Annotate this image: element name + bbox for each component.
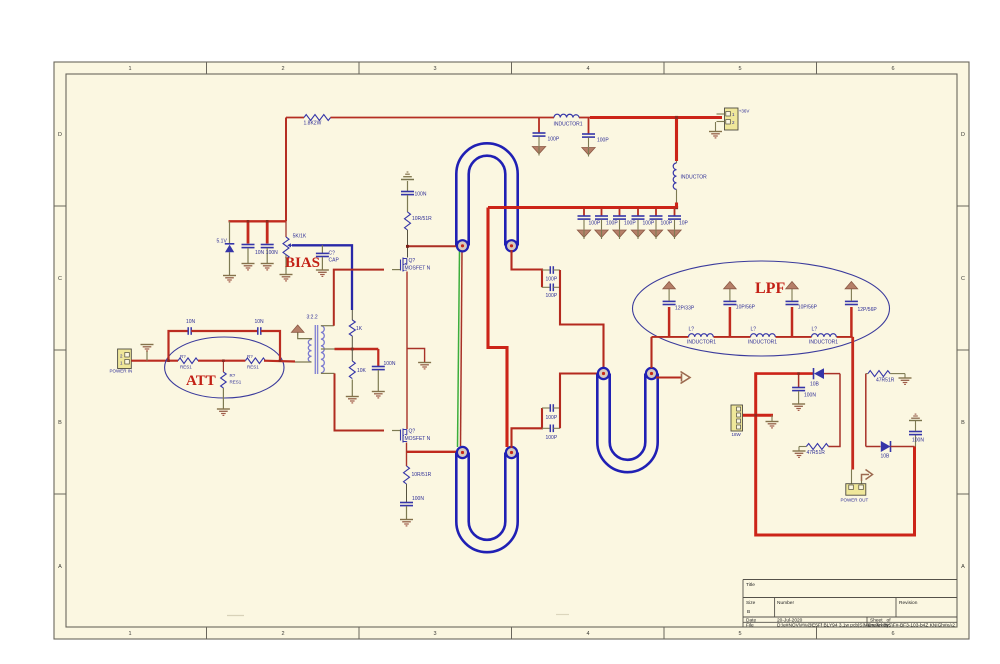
svg-text:Size: Size <box>746 600 756 606</box>
power arrow LPF 4 <box>845 282 858 293</box>
svg-text:100N: 100N <box>266 250 278 256</box>
ground bus 5 <box>649 230 662 239</box>
wire green cross link <box>458 250 460 447</box>
connector POWER OUT <box>841 470 869 503</box>
capacitor 100P coupling top B <box>542 284 560 300</box>
svg-text:2: 2 <box>281 631 284 637</box>
capacitor 100P bus 5 <box>650 208 673 230</box>
ground at +36V <box>715 122 717 131</box>
capacitor 10N bias <box>242 221 265 263</box>
resistor R 1.8K2W <box>304 115 331 121</box>
ground under Q2 chain <box>400 520 413 526</box>
svg-text:A: A <box>961 564 965 570</box>
wire blue bias wiper <box>292 245 352 310</box>
capacitor 100N detector left <box>792 374 816 404</box>
capacitor 100P bus 4 <box>632 208 655 230</box>
svg-text:File: File <box>746 623 754 629</box>
svg-text:INDUCTOR1: INDUCTOR1 <box>687 340 716 346</box>
svg-text:C: C <box>961 276 965 282</box>
svg-text:D:\e#NOV\#%@E5Ff BLY94 3.1w pc: D:\e#NOV\#%@E5Ff BLY94 3.1w pcb|S|ManuTe… <box>777 623 955 629</box>
wire Q2 source stub <box>406 443 408 467</box>
node junction detector cap <box>797 372 800 375</box>
svg-text:100P: 100P <box>661 221 673 227</box>
svg-text:10P/56P: 10P/56P <box>736 305 756 311</box>
svg-text:POWER OUT: POWER OUT <box>841 498 869 503</box>
svg-text:RES1: RES1 <box>180 365 192 370</box>
wire small U right to arrow <box>656 376 681 378</box>
svg-text:10R/51R: 10R/51R <box>412 216 432 222</box>
svg-text:D: D <box>58 132 62 138</box>
inductor L? INDUCTOR1 lpf 3 <box>809 327 838 346</box>
svg-text:C: C <box>58 276 62 282</box>
svg-text:POWER IN: POWER IN <box>110 369 133 374</box>
resistor R? RES1 series left <box>178 354 198 370</box>
ground under 10K <box>346 397 359 403</box>
svg-text:6: 6 <box>891 631 894 637</box>
svg-text:C?: C? <box>329 251 336 257</box>
svg-text:INDUCTOR: INDUCTOR <box>681 175 708 181</box>
svg-text:CAP: CAP <box>329 258 340 264</box>
resistor 10K <box>349 349 366 396</box>
svg-text:LPF: LPF <box>755 280 785 297</box>
capacitor 100P coupling bottom B <box>542 425 560 441</box>
svg-text:3: 3 <box>433 631 436 637</box>
svg-text:3: 3 <box>433 66 436 72</box>
capacitor 100N Q1 chain <box>401 181 427 212</box>
ground under zener <box>223 276 236 282</box>
wire Z bottom to small U <box>560 374 599 429</box>
svg-text:100N: 100N <box>384 361 396 367</box>
capacitor 100N Q2 chain <box>400 496 424 519</box>
ellipse ATT <box>165 337 284 398</box>
svg-text:B: B <box>961 420 965 426</box>
ground under 100N <box>261 264 274 270</box>
svg-text:D: D <box>961 132 965 138</box>
svg-text:L?: L? <box>689 327 695 333</box>
svg-text:100N: 100N <box>912 438 924 444</box>
svg-text:100P: 100P <box>643 221 655 227</box>
svg-text:B: B <box>747 609 750 615</box>
svg-text:1: 1 <box>128 66 131 72</box>
svg-text:+36V: +36V <box>739 109 750 114</box>
ground bus 3 <box>613 230 626 239</box>
capacitor 10P bus 6 <box>668 208 689 230</box>
ground bus 2 <box>595 230 608 239</box>
wire gate2 net <box>335 373 385 430</box>
potentiometer 5K/1K <box>283 221 307 274</box>
svg-text:100N: 100N <box>415 192 427 198</box>
svg-text:L?: L? <box>751 327 757 333</box>
resistor R? RES1 series right <box>245 354 265 370</box>
coax tube upper U <box>463 150 512 247</box>
capacitor 10N att left <box>169 319 258 361</box>
svg-text:47R51R: 47R51R <box>876 378 895 384</box>
node Q1 drain junction <box>406 245 409 248</box>
power arrow LPF 2 <box>724 282 737 293</box>
node junction bias rail 10N <box>247 220 250 223</box>
wire small U right up to LPF <box>650 337 652 368</box>
capacitor 100P coupling bottom A <box>542 404 560 421</box>
svg-text:Q?: Q? <box>409 258 416 264</box>
wire detector right drop <box>829 374 841 447</box>
power arrow LPF 3 <box>786 282 799 293</box>
node terminal small-left <box>598 368 609 379</box>
transistor Q1 MOSFET N <box>392 258 431 272</box>
svg-text:A: A <box>58 564 62 570</box>
capacitor 100P top right <box>582 118 609 148</box>
svg-text:12P/33P: 12P/33P <box>675 306 695 312</box>
wire power in <box>131 360 178 362</box>
power arrow right of small U <box>681 372 691 384</box>
svg-text:MOSFET N: MOSFET N <box>405 436 431 442</box>
node junction 18W loop <box>754 414 757 417</box>
wire output loop left <box>756 415 915 535</box>
svg-text:Q?: Q? <box>409 429 416 435</box>
wire right branch drop <box>865 374 867 447</box>
ground Q1 source <box>418 363 431 369</box>
capacitor 100N bias <box>261 221 278 263</box>
svg-text:4: 4 <box>586 631 589 637</box>
capacitor 12P/33P <box>663 292 695 337</box>
resistor 47R51R upper right <box>866 371 905 384</box>
wire main bus vertical drop <box>488 208 507 448</box>
ground at power in <box>146 351 148 361</box>
wire LPF main <box>652 336 689 338</box>
title block <box>743 580 957 628</box>
diode D detector left <box>810 368 840 388</box>
ground at 18W <box>771 415 773 421</box>
svg-text:10K: 10K <box>357 368 367 374</box>
wire red cross link <box>461 251 463 446</box>
svg-text:5.1V: 5.1V <box>217 239 228 245</box>
wire top mid stub <box>579 117 592 119</box>
svg-text:10B: 10B <box>881 454 891 460</box>
wire center tap <box>335 348 379 350</box>
svg-text:1: 1 <box>128 631 131 637</box>
connector POWER IN <box>110 349 133 374</box>
node junction bias rail 100N <box>266 220 269 223</box>
capacitor 10P/56P second <box>723 292 755 337</box>
svg-text:100P: 100P <box>606 221 618 227</box>
wire top thick to connector <box>590 116 722 119</box>
ground under shunt RES1 <box>217 409 230 415</box>
power arrow at transformer primary <box>291 325 304 336</box>
inductor L? INDUCTOR1 lpf 2 <box>748 327 777 346</box>
ellipse LPF <box>633 261 890 356</box>
ground under CAP <box>316 270 329 276</box>
ground under 100N center tap <box>372 392 385 398</box>
svg-text:5K/1K: 5K/1K <box>293 234 307 240</box>
svg-text:100P: 100P <box>548 137 560 143</box>
power arrow LPF 1 <box>663 282 676 293</box>
node junction att mid <box>222 359 225 362</box>
node terminal upper-right <box>506 240 517 251</box>
svg-text:INDUCTOR1: INDUCTOR1 <box>809 340 838 346</box>
ground bus 4 <box>631 230 644 239</box>
svg-text:4: 4 <box>586 66 589 72</box>
svg-text:100P: 100P <box>597 138 609 144</box>
svg-text:100P: 100P <box>589 221 601 227</box>
ground lower resistor <box>793 451 806 457</box>
transistor Q2 MOSFET N <box>392 429 431 443</box>
svg-text:12P/56P: 12P/56P <box>858 307 878 313</box>
wire top feed horizontal <box>286 117 304 119</box>
svg-text:100P: 100P <box>546 435 558 441</box>
svg-text:INDUCTOR1: INDUCTOR1 <box>554 122 583 128</box>
svg-text:Title: Title <box>746 582 755 588</box>
wire att mid <box>198 360 245 362</box>
svg-text:MOSFET N: MOSFET N <box>405 266 431 272</box>
svg-text:R?: R? <box>247 354 253 359</box>
node junction bus right <box>675 206 678 209</box>
svg-text:RES1: RES1 <box>247 365 259 370</box>
svg-text:10B: 10B <box>810 382 820 388</box>
svg-text:1K: 1K <box>356 326 363 332</box>
svg-text:10P/56P: 10P/56P <box>798 305 818 311</box>
wire feed drop to bias rail <box>285 118 287 222</box>
svg-text:Revision: Revision <box>899 600 918 606</box>
svg-text:2: 2 <box>281 66 284 72</box>
wire main bus horizontal <box>488 206 677 209</box>
capacitor 100P bus 2 <box>595 208 618 230</box>
svg-text:100P: 100P <box>546 276 558 282</box>
resistor 10R/51R Q2 chain <box>404 466 432 502</box>
ground up-facing above Q1 chain <box>401 172 414 180</box>
node divider junction <box>351 348 354 351</box>
ground under 10N <box>242 264 255 270</box>
svg-text:10R/51R: 10R/51R <box>412 472 432 478</box>
connector J 18W <box>731 405 743 437</box>
inductor INDUCTOR1 top <box>554 114 583 127</box>
svg-text:5: 5 <box>738 66 741 72</box>
node junction top <box>675 116 678 119</box>
svg-text:ATT: ATT <box>186 373 216 389</box>
svg-text:B: B <box>58 420 62 426</box>
svg-text:10P: 10P <box>679 221 689 227</box>
inductor L? INDUCTOR1 lpf 1 <box>687 327 716 346</box>
svg-text:RES1: RES1 <box>230 380 242 385</box>
capacitor 10N att right <box>255 319 281 361</box>
wire faint artifact <box>227 615 244 617</box>
svg-text:R?: R? <box>180 354 186 359</box>
svg-text:100N: 100N <box>412 496 424 502</box>
svg-text:BIAS: BIAS <box>285 255 320 271</box>
svg-text:47R51R: 47R51R <box>807 450 826 456</box>
capacitor 100P bus 1 <box>578 208 601 230</box>
wire Z top to small U <box>560 270 604 368</box>
node terminal lower-left <box>457 447 468 458</box>
wire Z bottom from lower-right terminal <box>512 408 543 448</box>
capacitor 100P coupling top A <box>542 266 560 282</box>
wire bias rail <box>229 220 287 222</box>
coax tube small U <box>604 373 652 467</box>
ground top left cap <box>532 147 545 156</box>
svg-text:Number: Number <box>777 600 794 606</box>
wire LPF output drop <box>851 337 854 470</box>
wire Q1 drain <box>407 245 458 247</box>
node junction att left <box>167 359 170 362</box>
wire output top branch <box>756 372 814 375</box>
power arrow at POWER OUT <box>862 470 873 482</box>
ground bus 6 <box>668 230 681 239</box>
svg-text:18W: 18W <box>732 432 742 437</box>
svg-text:3:2.2: 3:2.2 <box>307 315 318 321</box>
node junction att right <box>279 359 282 362</box>
ground top right cap <box>582 148 595 157</box>
wire gate1 net <box>334 270 384 326</box>
svg-text:10N: 10N <box>255 319 265 325</box>
svg-text:10N: 10N <box>255 250 265 256</box>
capacitor 12P/56P fourth <box>845 292 877 337</box>
capacitor 100N right <box>909 421 924 447</box>
svg-text:10N: 10N <box>186 319 196 325</box>
node terminal lower-right <box>506 447 517 458</box>
capacitor 100P top left <box>533 118 560 147</box>
svg-text:100P: 100P <box>624 221 636 227</box>
ground bus 1 <box>577 230 590 239</box>
wire Z top from upper-right terminal <box>512 250 543 287</box>
wire faint artifact 2 <box>556 614 569 616</box>
svg-text:100P: 100P <box>546 293 558 299</box>
svg-text:6: 6 <box>891 66 894 72</box>
svg-text:L?: L? <box>812 327 818 333</box>
node terminal upper-left <box>457 240 468 251</box>
capacitor 100P bus 3 <box>613 208 636 230</box>
ground upper resistor <box>904 374 906 378</box>
svg-text:1.8K2W: 1.8K2W <box>304 121 322 127</box>
resistor 10R/51R Q1 chain <box>405 212 433 258</box>
ground up-facing right <box>909 414 922 420</box>
diode D detector right <box>866 441 915 460</box>
wire Q1 interstage vertical <box>406 272 408 430</box>
svg-text:5: 5 <box>738 631 741 637</box>
svg-text:100P: 100P <box>546 415 558 421</box>
resistor 1K <box>349 310 362 349</box>
ground detector left <box>792 404 805 410</box>
wire att out <box>264 360 295 363</box>
resistor 47R51R lower <box>799 444 829 456</box>
wire Q2 drain <box>407 451 458 453</box>
capacitor 10P/56P third <box>786 292 818 337</box>
svg-text:100N: 100N <box>804 393 816 399</box>
wire top run to inductor <box>331 117 555 119</box>
svg-text:R?: R? <box>230 373 236 378</box>
coax tube lower U <box>463 452 512 547</box>
svg-text:Drawn By:: Drawn By: <box>868 623 890 629</box>
wire Q1 source ground branch <box>407 349 425 363</box>
transformer T 3:2.2 <box>295 315 335 375</box>
resistor R? RES1 shunt <box>221 361 242 409</box>
connector P +36V <box>717 108 750 130</box>
capacitor C? CAP <box>316 245 340 269</box>
capacitor 100N at center tap <box>372 349 396 391</box>
inductor L choke vertical <box>673 118 707 209</box>
svg-text:INDUCTOR1: INDUCTOR1 <box>748 340 777 346</box>
ground under pot <box>280 275 293 281</box>
diode D zener 5.1V <box>217 221 235 275</box>
node terminal small-right <box>646 368 657 379</box>
